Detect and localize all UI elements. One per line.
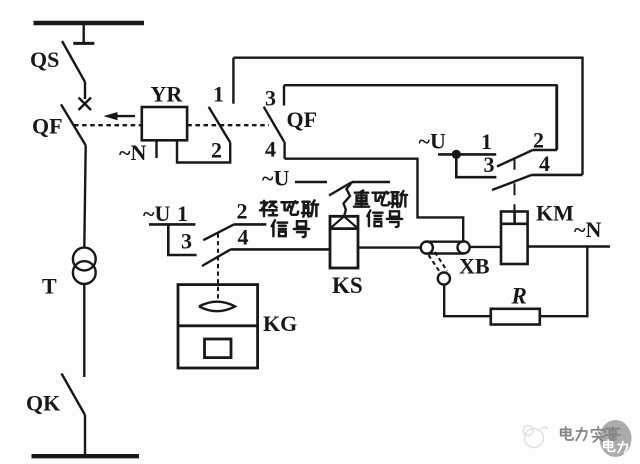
left ~U contact 3 branch bbox=[168, 224, 196, 255]
svg-text:1: 1 bbox=[177, 201, 188, 226]
wire QS to QF bbox=[84, 82, 86, 99]
text heavy-gas signal line2 bbox=[367, 210, 402, 227]
wire KM to ~N bbox=[528, 245, 610, 247]
XB terminal circle left bbox=[421, 242, 433, 254]
wire transformer to QK bbox=[83, 284, 85, 377]
squiggle wire to KS bbox=[344, 182, 353, 216]
disconnector QS blade bbox=[62, 41, 85, 82]
top rail wire bbox=[233, 58, 582, 175]
dashed trip linkage QF to YR bbox=[74, 124, 269, 126]
dashed link to KG bbox=[217, 234, 219, 300]
KM linkage dashes bbox=[514, 158, 516, 212]
wire QF to transformer bbox=[84, 145, 85, 247]
YR pin to ~N bbox=[155, 140, 157, 158]
KG divider bbox=[178, 324, 258, 327]
KM contact 2 terminal bbox=[533, 149, 557, 152]
wire contact4 to KS bbox=[231, 248, 330, 251]
heavy gas ~U wire bbox=[295, 181, 327, 184]
svg-text:2: 2 bbox=[211, 138, 222, 163]
svg-text:4: 4 bbox=[539, 151, 550, 176]
text heavy-gas signal line1 bbox=[354, 190, 407, 207]
text light-gas signal line1 bbox=[260, 200, 318, 216]
svg-text:QS: QS bbox=[30, 47, 59, 72]
svg-text:R: R bbox=[511, 284, 527, 309]
QF aux contact 4 terminal bbox=[283, 142, 285, 159]
KM contact blade 3-4 bbox=[492, 175, 532, 190]
KM contact 4 terminal bbox=[532, 174, 583, 177]
svg-text:2: 2 bbox=[533, 127, 544, 152]
svg-text:4: 4 bbox=[265, 137, 276, 162]
wire QK to bottom busbar bbox=[84, 415, 86, 457]
svg-text:1: 1 bbox=[213, 82, 224, 107]
QS fixed contact stem bbox=[82, 23, 84, 43]
transformer T winding 1 bbox=[73, 248, 96, 271]
wire 2 up to rail bbox=[556, 85, 558, 150]
wire XB to KM bbox=[470, 246, 501, 248]
switch QK blade bbox=[62, 374, 86, 416]
XB alternate position dashes bbox=[429, 252, 448, 274]
svg-text:~U: ~U bbox=[419, 129, 446, 154]
svg-text:~U: ~U bbox=[143, 201, 170, 226]
KG contact blade 1-2 bbox=[203, 224, 234, 240]
svg-text:KS: KS bbox=[332, 273, 363, 298]
QF aux contact 1 top terminal bbox=[232, 58, 234, 104]
KS flag diagonals bbox=[330, 216, 358, 228]
junction dot bbox=[452, 150, 461, 159]
svg-text:~U: ~U bbox=[262, 166, 289, 191]
svg-text:QK: QK bbox=[26, 391, 60, 416]
QF aux contact 1-2 blade bbox=[209, 107, 231, 143]
QS fixed contact T-bar bbox=[73, 42, 94, 45]
KG contact blade 3-4 bbox=[202, 249, 231, 266]
wire KS to XB bbox=[358, 246, 421, 248]
resistor R body bbox=[491, 309, 540, 325]
trip direction arrow bbox=[104, 112, 136, 120]
svg-text:1: 1 bbox=[481, 129, 492, 154]
KM top divider bbox=[501, 223, 528, 226]
svg-text:4: 4 bbox=[238, 225, 249, 250]
heavy gas fixed terminal bbox=[352, 181, 390, 184]
svg-text:~N: ~N bbox=[119, 140, 146, 165]
YR pin 2 wire bbox=[177, 140, 230, 162]
KM contact blade 1-2 bbox=[497, 150, 533, 167]
left ~U contact fixed line 1 bbox=[149, 223, 195, 226]
KM top cell divider bbox=[513, 212, 516, 224]
XB link bar bbox=[427, 242, 464, 254]
svg-text:QF: QF bbox=[287, 107, 318, 132]
X mark (breaker symbol) bbox=[79, 98, 92, 111]
top busbar bbox=[34, 21, 145, 25]
svg-text:3: 3 bbox=[265, 86, 276, 111]
svg-text:XB: XB bbox=[459, 254, 490, 279]
svg-text:KM: KM bbox=[536, 201, 574, 226]
watermark badge circle bbox=[600, 420, 632, 457]
wire contact4 to XB bbox=[285, 159, 464, 242]
svg-text:KG: KG bbox=[263, 311, 297, 336]
text light-gas signal line2 bbox=[272, 220, 309, 237]
svg-text:3: 3 bbox=[484, 152, 495, 177]
svg-text:QF: QF bbox=[32, 114, 63, 139]
bottom busbar bbox=[32, 454, 140, 458]
KS flag divider bbox=[330, 227, 358, 230]
signal relay KS body bbox=[330, 216, 358, 268]
heavy gas contact blade bbox=[329, 182, 352, 196]
svg-text:~N: ~N bbox=[574, 217, 601, 242]
watermark badge text bbox=[604, 440, 627, 453]
QF aux contact 3 top terminal bbox=[283, 85, 285, 105]
watermark text bbox=[561, 427, 620, 443]
wire XB spare to R bbox=[444, 285, 491, 317]
breaker QF blade bbox=[61, 104, 86, 145]
XB spare terminal circle bbox=[438, 272, 450, 284]
svg-text:YR: YR bbox=[151, 82, 184, 107]
XB terminal circle right bbox=[458, 241, 470, 253]
KG float lens bbox=[199, 302, 235, 312]
KG contact 2 terminal bbox=[234, 223, 266, 226]
second rail wire bbox=[284, 85, 557, 150]
relay KM body bbox=[501, 212, 528, 265]
gas relay KG body bbox=[178, 285, 258, 368]
svg-text:2: 2 bbox=[237, 198, 248, 223]
transformer T winding 2 bbox=[73, 261, 96, 284]
wire R to ~N rail bbox=[540, 247, 588, 317]
QF aux contact 3-4 blade bbox=[264, 107, 284, 142]
watermark sketch logo bbox=[523, 426, 548, 448]
svg-text:3: 3 bbox=[181, 229, 192, 254]
~U supply wire (right) bbox=[438, 153, 496, 156]
trip coil YR bbox=[142, 107, 187, 140]
KM contact 3 branch wire bbox=[456, 154, 496, 177]
svg-text:T: T bbox=[42, 274, 57, 299]
KG lower cup bbox=[205, 339, 232, 358]
